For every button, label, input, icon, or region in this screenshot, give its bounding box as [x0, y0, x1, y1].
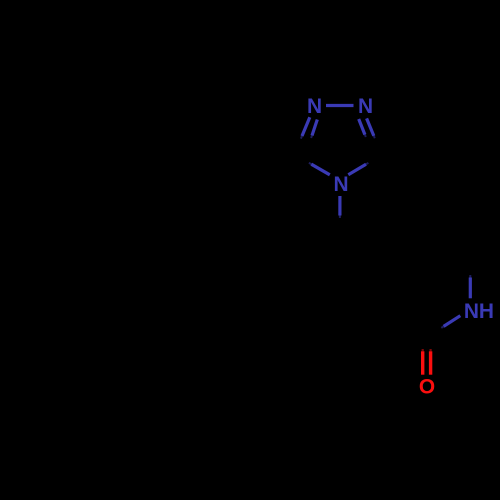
svg-text:H: H — [479, 300, 494, 323]
svg-text:N: N — [307, 95, 322, 118]
svg-text:N: N — [358, 95, 373, 118]
svg-text:N: N — [333, 173, 348, 196]
svg-text:N: N — [464, 300, 479, 323]
svg-text:O: O — [419, 376, 435, 399]
